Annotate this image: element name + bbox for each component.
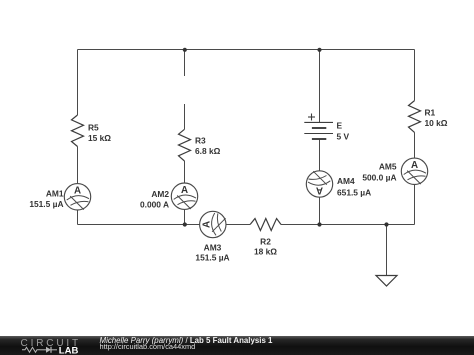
circuitlab logo: [0, 336, 90, 355]
label R1: [425, 108, 448, 129]
label E 5V: [337, 121, 350, 142]
label AM2: [140, 189, 169, 209]
ammeter AM2: [171, 183, 197, 209]
label R3: [195, 136, 221, 157]
node junction bottom ground: [384, 222, 388, 226]
ground: [376, 276, 397, 287]
label AM4: [337, 176, 371, 198]
svg-text:LAB: LAB: [59, 345, 79, 355]
wire middle branch R3 to AM2: [184, 161, 186, 183]
node junction top middle: [183, 48, 187, 52]
resistor R1: [409, 101, 421, 133]
ammeter AM5: [401, 158, 427, 184]
ammeter AM1: [64, 184, 90, 210]
label R5: [88, 123, 111, 144]
svg-text:A: A: [201, 221, 212, 228]
svg-text:AM4: AM4: [337, 176, 355, 186]
node junction bottom middle: [183, 222, 187, 226]
svg-text:0.000 A: 0.000 A: [140, 199, 169, 209]
wire middle branch AM2 to bottom rail: [184, 209, 186, 224]
svg-text:AM2: AM2: [151, 189, 169, 199]
svg-text:15 kΩ: 15 kΩ: [88, 133, 111, 143]
wire battery branch top: [319, 50, 321, 123]
resistor R3: [179, 129, 191, 161]
wire left branch AM1 to bottom rail: [77, 210, 79, 225]
wire left branch R5 to AM1: [77, 147, 79, 184]
battery plus sign: [308, 114, 315, 121]
ammeter AM3 (rotated 90 CCW, in series with bottom rail): [200, 211, 226, 237]
svg-text:151.5 µA: 151.5 µA: [29, 199, 63, 209]
wire battery to AM4: [319, 139, 321, 171]
resistor R5: [72, 115, 84, 147]
svg-text:5 V: 5 V: [337, 132, 350, 142]
svg-text:151.5 µA: 151.5 µA: [195, 253, 229, 263]
battery E: [304, 122, 333, 139]
wire bottom rail left segment: [78, 224, 200, 226]
node junction top battery: [317, 48, 321, 52]
svg-text:A: A: [181, 185, 188, 196]
svg-text:R2: R2: [260, 236, 271, 246]
node junction bottom battery: [317, 222, 321, 226]
svg-text:10 kΩ: 10 kΩ: [425, 118, 448, 128]
svg-text:18 kΩ: 18 kΩ: [254, 247, 277, 257]
svg-text:R3: R3: [195, 136, 206, 146]
wire bottom rail right segment: [281, 224, 415, 226]
svg-text:AM5: AM5: [379, 162, 397, 172]
wire top rail: [78, 49, 415, 51]
svg-text:A: A: [316, 184, 323, 195]
ammeter AM4 (rotated 180): [306, 171, 332, 197]
wire R1 to AM5: [414, 132, 416, 158]
svg-text:A: A: [411, 160, 418, 171]
wire ground stem: [386, 225, 388, 276]
resistor R2: [250, 219, 281, 231]
wire right branch top: [414, 50, 416, 101]
svg-text:651.5 µA: 651.5 µA: [337, 188, 371, 198]
svg-text:R1: R1: [425, 108, 436, 118]
svg-text:E: E: [337, 121, 343, 131]
wire AM4 to bottom rail: [319, 197, 321, 224]
footer text line 1: [100, 336, 273, 345]
wire AM5 to bottom rail: [414, 185, 416, 225]
wire left branch upper: [77, 50, 79, 116]
footer text line 2: [100, 342, 196, 351]
svg-text:500.0 µA: 500.0 µA: [362, 173, 396, 183]
svg-text:A: A: [74, 185, 81, 196]
label AM1: [29, 189, 64, 210]
svg-text:AM1: AM1: [46, 189, 64, 199]
label AM5: [362, 162, 397, 183]
footer bar: [0, 336, 474, 355]
wire middle branch stub above break: [184, 50, 186, 77]
svg-text:6.8 kΩ: 6.8 kΩ: [195, 146, 221, 156]
wire bottom rail middle segment: [226, 224, 250, 226]
svg-text:AM3: AM3: [204, 243, 222, 253]
label R2: [254, 236, 277, 256]
svg-text:R5: R5: [88, 123, 99, 133]
label AM3: [195, 243, 229, 263]
wire middle branch stub below break: [184, 104, 186, 129]
